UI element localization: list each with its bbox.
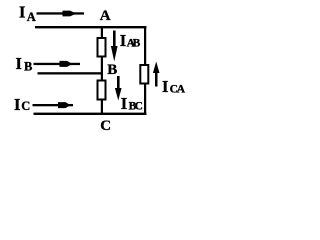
svg-text:C: C — [21, 99, 30, 113]
load Z_BC — [98, 81, 106, 100]
svg-text:A: A — [100, 8, 111, 24]
label I_BC — [121, 94, 143, 113]
load Z_CA — [140, 65, 148, 84]
wire phase A top — [35, 26, 146, 28]
current arrow I_C — [33, 102, 74, 108]
wire right branch C-A — [144, 27, 146, 115]
svg-text:A: A — [27, 10, 36, 24]
svg-text:I: I — [16, 54, 22, 73]
svg-text:A: A — [177, 84, 186, 96]
wire phase B — [38, 72, 104, 74]
current arrow I_CA — [153, 62, 160, 87]
label I_AB — [120, 31, 141, 50]
label I_C — [14, 95, 30, 114]
svg-text:I: I — [19, 3, 25, 22]
label I_B — [16, 54, 33, 74]
svg-text:B: B — [107, 62, 117, 78]
svg-text:C: C — [100, 118, 111, 134]
svg-text:C: C — [135, 101, 143, 113]
svg-text:I: I — [14, 95, 20, 114]
current arrow I_B — [34, 61, 81, 67]
label I_CA — [162, 77, 186, 96]
current arrow I_BC — [115, 76, 122, 101]
wire phase C / bottom — [34, 113, 147, 115]
load Z_AB — [98, 38, 106, 57]
svg-text:I: I — [121, 94, 127, 113]
label I_A — [19, 3, 36, 25]
svg-text:B: B — [133, 38, 141, 50]
svg-text:I: I — [120, 31, 126, 50]
current arrow I_A — [37, 11, 85, 17]
svg-text:B: B — [24, 60, 32, 74]
current arrow I_AB — [111, 31, 118, 62]
svg-text:I: I — [162, 77, 168, 96]
wire left bus A-B-C — [101, 27, 103, 115]
